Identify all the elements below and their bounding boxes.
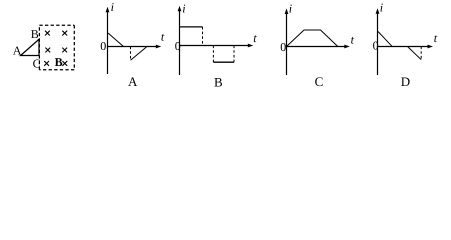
svg-text:D: D bbox=[401, 74, 410, 89]
svg-text:A: A bbox=[128, 74, 138, 89]
triangle coil ABC bbox=[21, 39, 39, 55]
svg-text:C: C bbox=[33, 56, 41, 70]
graph D t-axis bbox=[377, 46, 430, 48]
svg-text:0: 0 bbox=[373, 39, 379, 53]
graph D i-axis bbox=[377, 11, 379, 75]
graph C i-axis bbox=[286, 11, 288, 75]
svg-text:B: B bbox=[214, 75, 223, 90]
graph B negative pulse right dashed edge bbox=[233, 46, 235, 63]
graph D descending segment above axis bbox=[378, 32, 392, 47]
graph A descending segment bbox=[108, 33, 123, 46]
graph B negative pulse bottom bbox=[213, 61, 234, 63]
graph A dashed drop bbox=[130, 47, 132, 61]
svg-text:i: i bbox=[289, 2, 292, 16]
field region dashed box bbox=[39, 25, 74, 70]
flux cross row3 col2 bbox=[62, 61, 67, 66]
svg-text:A: A bbox=[13, 43, 22, 57]
flux cross row3 col1 bbox=[44, 61, 49, 66]
graph D descending segment below axis bbox=[408, 47, 422, 60]
flux cross row2 col1 bbox=[45, 48, 50, 53]
svg-text:0: 0 bbox=[175, 39, 181, 53]
svg-text:i: i bbox=[182, 1, 185, 15]
svg-text:B: B bbox=[31, 27, 39, 41]
flux cross row1 col1 bbox=[45, 31, 50, 36]
graph B t-axis bbox=[179, 45, 251, 47]
graph A i-axis bbox=[107, 10, 109, 75]
graph C trapezoid pulse bbox=[287, 30, 338, 47]
svg-text:0: 0 bbox=[100, 39, 106, 53]
graph B dashed edge at pulse end bbox=[202, 27, 204, 46]
graph D dashed rise bbox=[420, 47, 422, 60]
svg-text:i: i bbox=[111, 0, 114, 14]
svg-text:B: B bbox=[55, 55, 63, 69]
svg-text:i: i bbox=[380, 1, 383, 15]
graph B negative pulse left dashed edge bbox=[212, 46, 214, 63]
graph B i-axis bbox=[179, 9, 181, 76]
graph A rising segment bbox=[131, 46, 148, 60]
graph A t-axis bbox=[107, 46, 159, 48]
svg-text:0: 0 bbox=[280, 40, 286, 54]
svg-text:C: C bbox=[315, 74, 324, 89]
flux cross row1 col2 bbox=[62, 31, 67, 36]
graph B positive pulse top bbox=[180, 26, 203, 28]
flux cross row2 col2 bbox=[62, 48, 67, 53]
graph C t-axis bbox=[286, 46, 347, 48]
